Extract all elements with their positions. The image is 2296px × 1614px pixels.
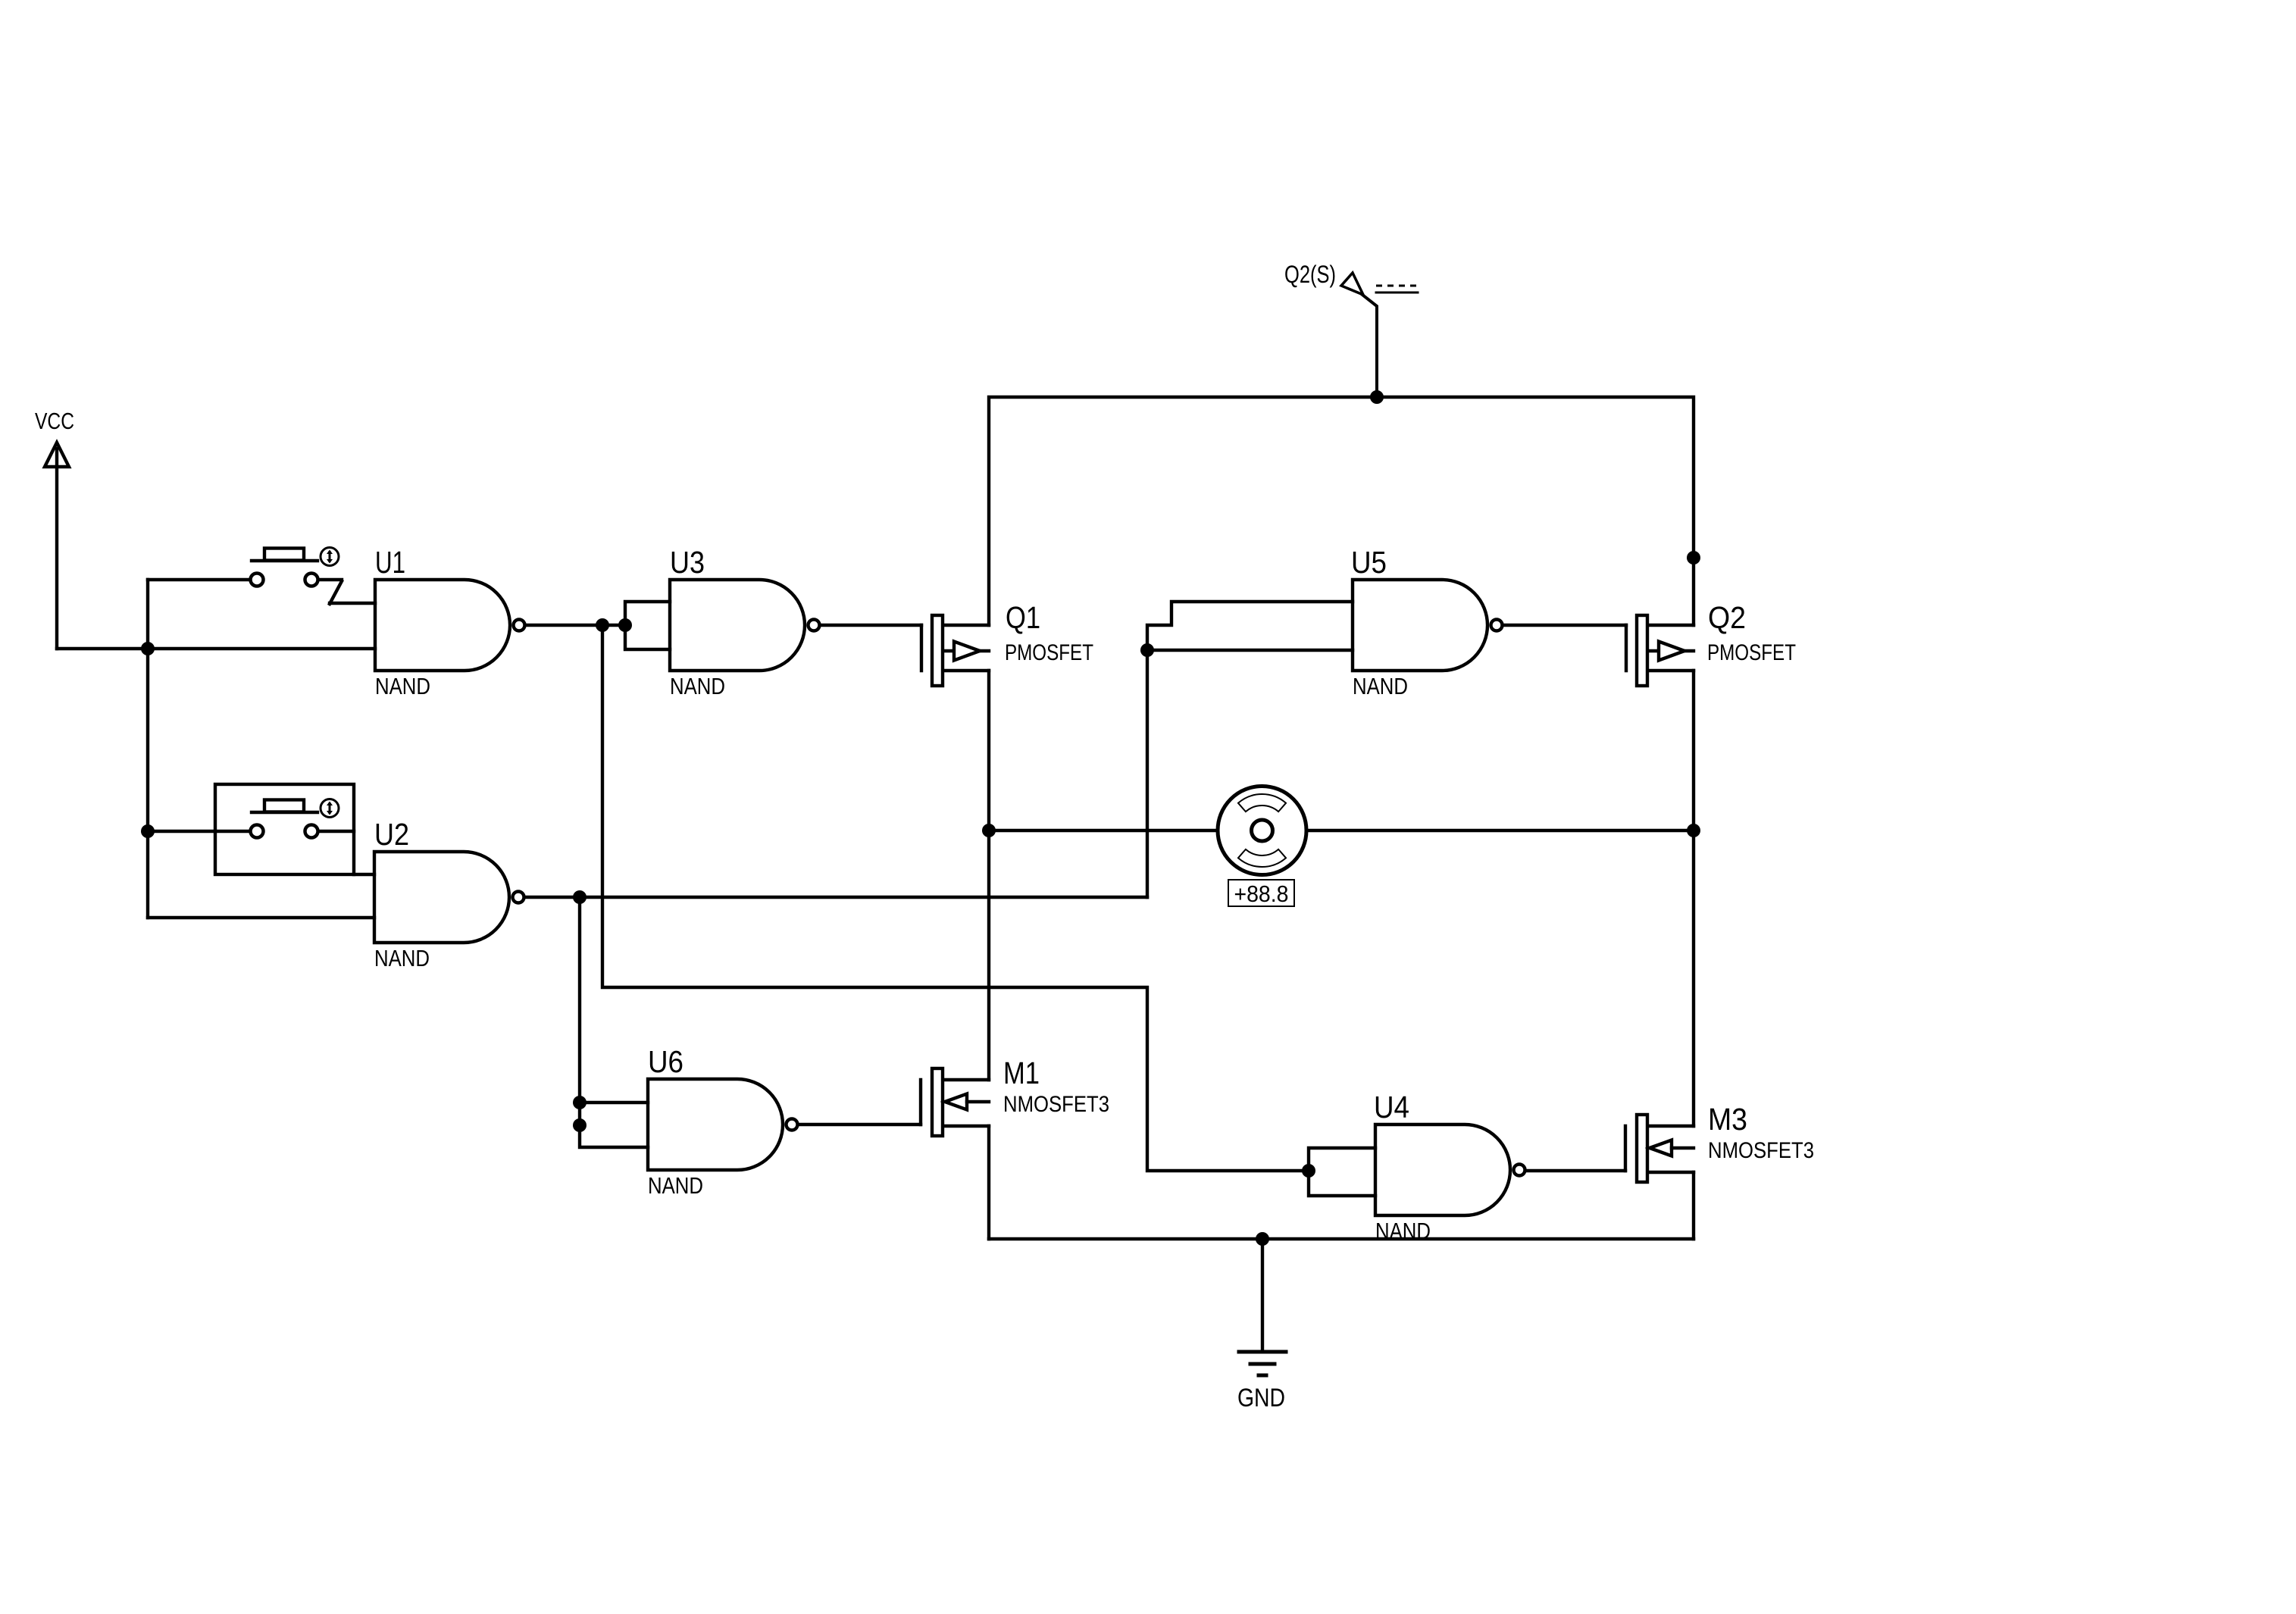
svg-text:U6: U6 [648, 1044, 683, 1079]
svg-text:M3: M3 [1708, 1102, 1747, 1137]
wire to U6 input A [580, 1101, 648, 1104]
wire top rail [989, 397, 1694, 625]
svg-text:NMOSFET3: NMOSFET3 [1708, 1138, 1814, 1163]
NAND gate U3 [670, 545, 820, 699]
svg-text:Q2(S): Q2(S) [1284, 261, 1336, 288]
NAND gate U5 [1351, 545, 1503, 699]
svg-text:PMOSFET: PMOSFET [1707, 640, 1796, 665]
svg-text:NAND: NAND [374, 945, 430, 971]
power flag VCC [35, 408, 74, 649]
wire U5 input staircase [1147, 602, 1353, 650]
wire bottom rail [989, 1237, 1694, 1240]
wire U3 input tie bracket [625, 602, 670, 649]
NAND gate U4 [1374, 1090, 1525, 1244]
wire left vertical bus x=195 [146, 580, 149, 918]
svg-text:NAND: NAND [670, 673, 725, 699]
transistor Q1 PMOSFET [921, 600, 1093, 686]
wire to button1 left terminal [148, 578, 249, 581]
wire motor right lead [1306, 829, 1694, 832]
svg-text:Q1: Q1 [1006, 600, 1040, 635]
node junction at (1305,1096) [982, 824, 996, 837]
svg-text:NMOSFET3: NMOSFET3 [1003, 1092, 1109, 1117]
wire node to button2 left terminal [148, 830, 249, 833]
svg-text:GND: GND [1237, 1384, 1285, 1412]
wire button2 right terminal to box edge [319, 830, 354, 833]
svg-text:NAND: NAND [375, 673, 430, 699]
wire U3 output to Q1 gate [821, 624, 921, 627]
svg-text:PMOSFET: PMOSFET [1005, 640, 1093, 665]
svg-text:U5: U5 [1351, 545, 1387, 580]
svg-text:+88.8: +88.8 [1234, 881, 1289, 907]
svg-text:NAND: NAND [648, 1172, 703, 1199]
wire motor left lead [989, 829, 1218, 832]
wire button1 actuator to U1 input A [330, 602, 375, 605]
ground symbol GND [1237, 1239, 1286, 1412]
node junction at (195,856) [141, 642, 155, 655]
wire M1 source down to bottom rail [987, 1126, 990, 1239]
node junction at (1727,1545) [1302, 1164, 1315, 1178]
node junction at (765,1184) [573, 890, 587, 904]
node junction at (2235,736) [1687, 551, 1700, 565]
wire Q1 drain down to M1 [987, 671, 990, 1080]
wire M3 source down to bottom rail [1692, 1172, 1695, 1239]
node junction at (765,1485) [573, 1118, 587, 1132]
motor M2 [1218, 787, 1306, 875]
pushbutton SW2 [251, 799, 339, 838]
transistor Q2 PMOSFET [1626, 600, 1796, 686]
svg-text:M1: M1 [1003, 1056, 1040, 1090]
wire VCC rail to U1 input B [57, 647, 375, 650]
node junction at (1817,524) [1370, 390, 1384, 404]
NAND gate U6 [648, 1044, 798, 1199]
node junction at (795,825) [596, 618, 609, 632]
wire U2 output down to U6 inputs [580, 897, 648, 1147]
NAND gate U2 [374, 817, 524, 971]
svg-text:U2: U2 [374, 817, 409, 852]
transistor M3 NMOSFET3 [1625, 1102, 1814, 1182]
node junction at (195,1097) [141, 824, 155, 838]
svg-text:U4: U4 [1374, 1090, 1409, 1124]
wire to U2 input B [148, 916, 374, 919]
motor value box +88.8 [1228, 880, 1294, 907]
wire Q2 drain down to M3 [1692, 671, 1695, 1126]
node junction at (765,1455) [573, 1096, 587, 1109]
NAND gate U1 [375, 545, 525, 699]
svg-text:U1: U1 [375, 545, 405, 580]
node junction at (1514,858) [1140, 643, 1154, 657]
node junction at (825,825) [618, 618, 632, 632]
svg-text:Q2: Q2 [1708, 600, 1746, 635]
voltage probe Q2(S) [1284, 261, 1418, 397]
pushbutton SW2 box [215, 784, 354, 874]
wire U4 input tie bracket [1309, 1148, 1375, 1196]
wire U2 output across to U5 riser [525, 896, 1147, 899]
wire box to U2 input A [354, 873, 374, 876]
svg-text:NAND: NAND [1353, 673, 1408, 699]
node junction at (2235,1096) [1687, 824, 1700, 837]
wire U1 feedback down to U4 (via x=795,y=1303,x=1514) [602, 625, 1309, 1171]
wire U6 output to M1 gate [799, 1123, 921, 1126]
wire U5 output to Q2 gate [1503, 624, 1626, 627]
transistor M1 NMOSFET3 [921, 1056, 1109, 1136]
svg-text:U3: U3 [670, 545, 705, 580]
pushbutton SW1 [251, 548, 343, 605]
wire riser x=1514 up to U5 inputs [1146, 650, 1149, 897]
wire U4 output to M3 gate [1525, 1169, 1625, 1172]
svg-text:VCC: VCC [35, 408, 74, 434]
wire U5 input B [1147, 649, 1353, 652]
wire U1 output to U3 inputs node [526, 624, 625, 627]
node junction at (1666,1635) [1256, 1232, 1269, 1246]
